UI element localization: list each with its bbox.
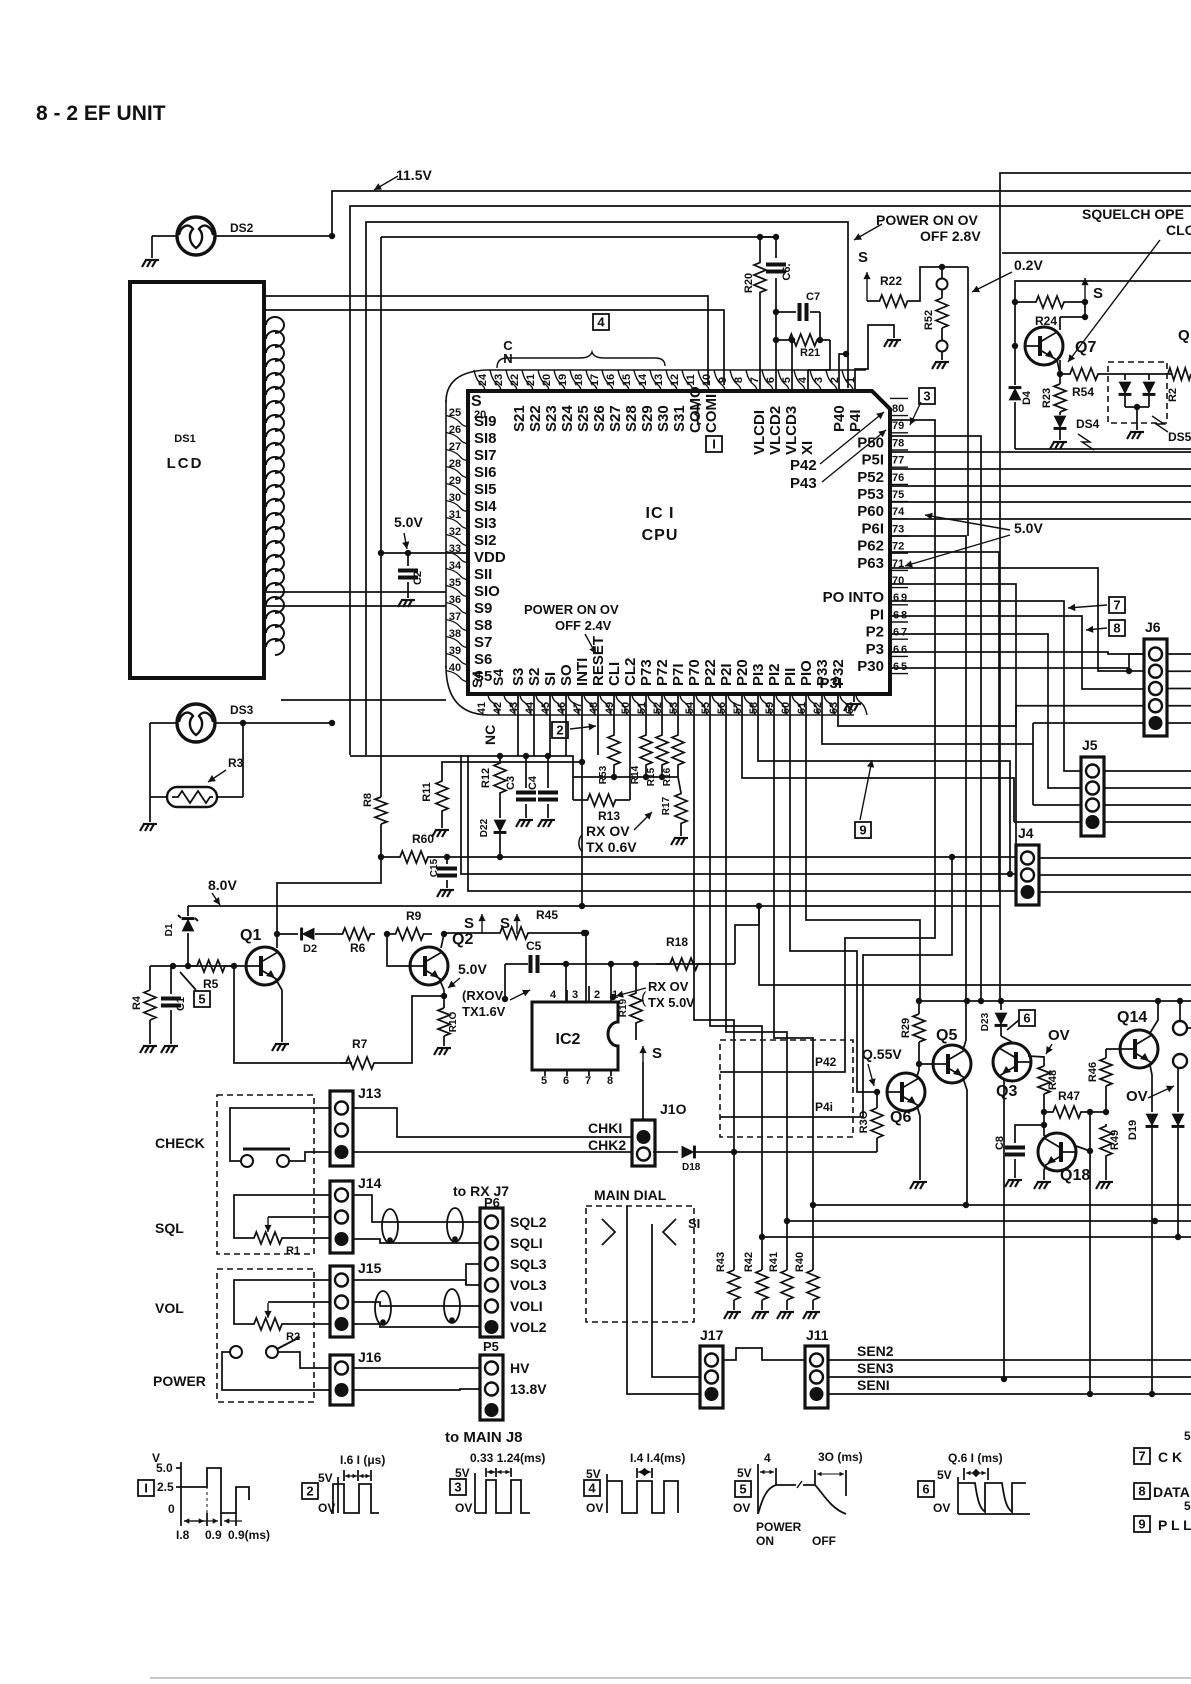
wire CHK2 [353,1151,632,1153]
wire pin68 net [890,601,1081,771]
node 8.0V [208,877,237,905]
wire Q2 collector [441,934,444,948]
wire pin63 long [838,694,1016,726]
svg-text:P6I: P6I [861,520,884,537]
label to MAIN J8 [445,1429,523,1446]
label VOL3 [510,1277,547,1293]
svg-text:SI: SI [688,1216,700,1231]
svg-text:S26: S26 [591,405,608,432]
svg-text:21: 21 [525,374,537,386]
svg-text:3: 3 [454,1480,461,1495]
svg-text:5: 5 [541,1075,547,1087]
capacitor C4 [527,756,558,818]
resistor R9 [387,909,432,940]
svg-text:S7: S7 [474,634,492,651]
svg-text:C1: C1 [175,997,187,1011]
ground R11 [432,830,449,837]
svg-text:0.2V: 0.2V [1014,257,1043,273]
wf6 axis [933,1468,958,1515]
node 6 box [1007,1010,1035,1030]
node 0V Q14 [1126,1086,1174,1105]
cpu bottom pin band [488,694,867,715]
label VOLI [510,1298,543,1314]
legend 9 PLL [1134,1516,1191,1533]
wf4 dims [630,1451,685,1478]
svg-text:SQLI: SQLI [510,1235,543,1251]
wire Q2 base [387,934,411,966]
svg-text:D4: D4 [1021,390,1033,405]
svg-text:D22: D22 [479,818,490,837]
wire pin54 R43 [694,694,734,1270]
wire pin79 net P42 [720,420,935,1072]
diode D4 [1009,346,1033,449]
svg-text:0: 0 [168,1502,175,1516]
dashed box VOL POWER [217,1269,314,1402]
svg-text:CHK2: CHK2 [588,1137,626,1153]
svg-text:P72: P72 [654,659,671,686]
svg-text:XI: XI [799,441,816,455]
svg-text:SI3: SI3 [474,515,497,532]
label HV [510,1360,530,1376]
resistor R4 [131,966,156,1044]
wire Q rail [920,998,1191,1004]
wire Q7 block bottom [1015,448,1191,450]
resistor R54 [1060,368,1108,399]
svg-text:7: 7 [1113,598,1120,613]
svg-text:R20: R20 [743,273,755,293]
svg-text:35: 35 [449,577,461,589]
svg-text:8 - 2 EF UNIT: 8 - 2 EF UNIT [36,102,166,125]
svg-text:J6: J6 [1145,619,1161,635]
svg-text:Q3: Q3 [996,1083,1017,1100]
thermistor R3 [167,756,244,807]
twist sql b [447,1208,463,1242]
svg-text:0.33 1.24(ms): 0.33 1.24(ms) [470,1451,545,1465]
svg-text:S29: S29 [639,405,656,432]
node 0.55V [862,1046,902,1086]
svg-text:13.8V: 13.8V [510,1381,547,1397]
svg-text:30: 30 [449,492,461,504]
ground R42 [752,1312,769,1319]
connector J5 [1081,737,1104,836]
resistor R29 [900,998,925,1064]
svg-text:POWER: POWER [153,1373,206,1389]
svg-text:25: 25 [449,407,461,419]
wire C5 left [502,964,508,1002]
svg-text:26: 26 [449,424,461,436]
svg-text:J13: J13 [358,1085,382,1101]
svg-text:S31: S31 [671,405,688,432]
svg-text:COMI: COMI [703,394,720,433]
svg-text:S4: S4 [490,669,506,686]
node RX0V TX5.0V [610,979,695,1010]
cpu left pin labels S5-S20 VDD [469,393,506,688]
wire R41 tap [784,1218,1191,1224]
svg-text:0.9: 0.9 [205,1528,222,1542]
wire J6 right pins [1166,654,1191,723]
pad circle right bottom [1173,1001,1187,1068]
wire Q1 emitter [275,978,282,1042]
node POWER ON 0V OFF 2.8V [854,212,981,244]
svg-text:POWER ON OV: POWER ON OV [524,602,619,617]
diode D18 [653,1146,877,1173]
svg-text:24: 24 [477,373,489,386]
svg-text:16: 16 [605,374,617,386]
wf1 axis [152,1451,181,1516]
svg-text:IC2: IC2 [556,1031,581,1048]
svg-text:OFF 2.8V: OFF 2.8V [920,228,981,244]
svg-text:S: S [652,1045,662,1062]
cpu bottom pin labels [490,636,847,686]
label SQL3 [510,1256,547,1272]
wf2 axis [318,1471,338,1515]
svg-text:{: { [694,400,701,425]
svg-text:to MAIN J8: to MAIN J8 [445,1429,523,1446]
wire pin55 R42 [710,694,762,1270]
svg-text:R45: R45 [536,908,558,922]
svg-text:15: 15 [621,374,633,386]
resistor R13 [573,694,630,823]
wire VOL2 [353,1324,480,1327]
svg-text:I.8: I.8 [176,1528,190,1542]
svg-text:S23: S23 [543,405,560,432]
wire Q6 emitter [917,1106,920,1180]
wire V968 down [967,267,969,536]
wire DS2 left stub [152,236,177,258]
ground C2 [398,600,415,607]
ground R43 [724,1312,741,1319]
svg-text:SI4: SI4 [474,498,497,515]
svg-text:5V: 5V [937,1468,952,1482]
wf2 trace [331,1484,379,1513]
svg-text:OV: OV [455,1501,472,1515]
svg-text:17: 17 [589,374,601,386]
svg-text:DS3: DS3 [230,703,254,717]
ground pin64 [844,694,861,711]
svg-text:(: ( [577,832,583,852]
svg-text:J17: J17 [700,1327,724,1343]
ground S branch [884,340,901,347]
svg-text:IC I: IC I [646,505,675,522]
wire pin56 R41 [726,694,787,1270]
svg-text:9: 9 [901,592,907,604]
svg-text:SI8: SI8 [474,430,497,447]
svg-text:5V: 5V [737,1466,752,1480]
svg-text:SEN3: SEN3 [857,1360,894,1376]
svg-text:73: 73 [892,523,904,535]
node Q partial [1178,327,1190,344]
wire CHK1 [353,1108,632,1137]
svg-text:(RXOV: (RXOV [462,988,504,1003]
svg-text:R22: R22 [880,274,902,288]
node 3 box top [910,388,935,425]
wire pin66 net [890,634,1081,788]
svg-text:40: 40 [449,662,461,674]
resistor R22 [867,264,968,307]
svg-text:J4: J4 [1018,825,1034,841]
svg-text:D19: D19 [1127,1120,1139,1140]
svg-text:PI2: PI2 [766,663,783,686]
wire CHECK right [289,1152,330,1161]
label P6 [484,1195,500,1210]
ground R52 [932,362,949,369]
svg-text:6: 6 [893,644,899,656]
svg-text:C4: C4 [527,775,539,790]
svg-text:5.0: 5.0 [156,1461,173,1475]
svg-text:R5: R5 [203,977,219,991]
svg-text:2: 2 [556,723,563,738]
diode D2 [277,928,338,955]
svg-text:S: S [464,915,474,932]
wire Q7 base [1012,343,1018,349]
svg-text:20: 20 [541,374,553,386]
svg-text:R46: R46 [1087,1062,1099,1082]
svg-text:POWER: POWER [756,1520,802,1534]
wire stair B pin61 [806,694,920,1001]
wire Q7 block top [1015,281,1191,346]
connector P6 [480,1208,503,1337]
svg-text:C: C [503,338,513,353]
wf5 trace [758,1450,863,1514]
svg-text:R3: R3 [228,756,244,770]
wire R18 line [540,963,735,965]
cpu right pin ticks [890,398,908,673]
wire pin72 net [890,536,966,1001]
svg-text:23: 23 [493,374,505,386]
node 5 box [180,972,210,1007]
svg-text:5V: 5V [318,1471,333,1485]
svg-text:to RX J7: to RX J7 [453,1183,509,1199]
svg-text:P40: P40 [831,405,848,432]
svg-text:P53: P53 [857,486,884,503]
wire J4 right pins [1039,858,1191,892]
svg-text:INTI: INTI [574,658,591,686]
wf6 trace [958,1483,1030,1514]
svg-text:R12: R12 [480,768,492,788]
label P5 [483,1339,499,1354]
wire pin47 drop [579,694,585,909]
node S arrow 1 [858,249,871,301]
svg-text:0.9(ms): 0.9(ms) [228,1528,270,1542]
resistor R16 [662,694,684,786]
led DS4 sym [1054,412,1100,450]
node D19 label [1127,1120,1139,1140]
svg-text:P20: P20 [734,659,751,686]
pad circle right top [1173,1021,1191,1035]
svg-text:Q18: Q18 [1060,1167,1090,1184]
svg-text:R21: R21 [800,347,820,359]
wire pin73 net [890,518,1191,520]
switch POWER [230,1337,300,1358]
wire R3 left [150,796,167,798]
svg-text:P52: P52 [857,469,884,486]
wf6 dims [948,1451,1003,1480]
svg-text:CLI: CLI [606,662,623,686]
svg-text:9: 9 [1138,1517,1145,1532]
node 8 box [1086,620,1125,636]
ground R4 [140,1046,157,1053]
svg-text:R17: R17 [661,796,672,815]
ground C4 [538,820,555,827]
switch CHECK [241,1149,290,1167]
wire junction R6 R9 [384,931,390,937]
svg-text:P62: P62 [857,538,884,555]
wire SQL2 [353,1195,480,1222]
svg-text:Q7: Q7 [1075,339,1096,356]
svg-text:2.5: 2.5 [157,1480,174,1494]
svg-text:2: 2 [306,1484,313,1499]
svg-text:38: 38 [449,628,461,640]
wire pin62 long [822,694,1033,805]
wire right h253 [1002,252,1191,254]
wf4 trace [607,1481,678,1513]
wire Q7 emitter [1057,360,1063,377]
ic IC2 top pins [550,986,618,1002]
dashed box P42 P41 [720,1040,853,1137]
cpu bottom pin numbers 41-64 [476,701,856,714]
wire LCD como [264,296,708,385]
svg-text:7: 7 [1138,1449,1145,1464]
wire Q18 right [1076,1146,1093,1154]
svg-text:R3O: R3O [858,1110,870,1133]
ground DS2 [142,260,159,267]
svg-text:C5: C5 [526,939,542,953]
wire right top corner [1000,173,1191,1001]
transistor Q5 [933,1027,971,1083]
svg-text:P73: P73 [638,659,655,686]
svg-text:6: 6 [901,644,907,656]
wire pin70 net [890,568,1144,671]
capacitor C5 [505,939,565,973]
svg-text:R19: R19 [618,998,629,1017]
wire SQL3 [466,1264,480,1285]
svg-text:R4: R4 [131,995,143,1010]
wf1 dashed [206,1468,208,1513]
svg-text:P5: P5 [483,1339,499,1354]
cpu left pin numbers 25-40 [449,407,462,674]
svg-text:8: 8 [1113,621,1120,636]
wire SQL1 [353,1239,480,1243]
resistor R20 [743,237,766,391]
transistor Q18 [1038,1133,1090,1184]
diode pair D in box [1108,374,1155,430]
wire SEN2 [828,1343,1191,1360]
resistor R18 [656,935,712,970]
wf3 box [450,1479,466,1495]
svg-text:P7I: P7I [670,663,687,686]
svg-text:DS4: DS4 [1076,417,1100,431]
svg-text:VLCDI: VLCDI [751,410,768,455]
svg-text:5: 5 [198,992,205,1007]
svg-text:DS2: DS2 [230,221,254,235]
svg-text:SIO: SIO [474,583,500,600]
svg-text:32: 32 [449,526,461,538]
wire base rail [155,963,245,969]
svg-text:D23: D23 [980,1012,991,1031]
connector J17 [700,1327,724,1408]
wire VDD line [378,550,468,556]
svg-text:8.0V: 8.0V [208,877,237,893]
svg-text:76: 76 [892,472,904,484]
wire Q6 collector [917,1064,919,1076]
svg-text:P L L: P L L [1158,1517,1191,1533]
resistor R40 [794,1252,819,1310]
svg-text:S3: S3 [510,668,527,686]
svg-text:22: 22 [509,374,521,386]
wire Q1 collector [274,931,280,948]
wire pin71 net [890,552,999,891]
svg-text:OFF 2.4V: OFF 2.4V [555,618,612,633]
resistor R12 [480,756,506,800]
svg-text:42: 42 [492,702,504,714]
wf1 dims [176,1513,270,1542]
resistor R17 [661,777,687,836]
wf5 labels [756,1520,836,1548]
svg-text:R42: R42 [743,1252,755,1272]
svg-text:Q14: Q14 [1117,1009,1147,1026]
wire squelch leader [1068,240,1160,362]
svg-text:R29: R29 [900,1018,912,1038]
node 5.0V Q2 [448,961,487,988]
resistor R46 [1087,1049,1112,1112]
label S1 [688,1216,700,1231]
svg-text:P70: P70 [686,659,703,686]
cpu IC1 outline [468,391,890,694]
resistor R47 [1044,1089,1093,1118]
node 5.0V right [905,513,1043,568]
wire 11.5V rail [332,191,1191,235]
svg-text:6: 6 [893,661,899,673]
diode D19 left [1146,1108,1159,1397]
LCD DS1 block [130,282,264,678]
svg-text:11: 11 [685,374,697,386]
resistor R7 [340,1037,380,1069]
svg-text:S30: S30 [655,405,672,432]
encoder chevron left [602,1219,615,1245]
wire LCD coil out [281,699,446,701]
wire J10 up [642,1062,644,1120]
connector J10 [632,1101,687,1166]
svg-text:(: ( [641,990,647,1007]
wire SEN3 [828,1360,1191,1377]
svg-text:P4i: P4i [815,1100,833,1114]
svg-text:SENI: SENI [857,1377,890,1393]
resistor R15 [646,694,668,786]
pot R2 [240,1303,300,1343]
svg-text:CPU: CPU [642,527,679,544]
svg-text:79: 79 [892,420,904,432]
svg-text:SI5: SI5 [474,481,497,498]
svg-text:J15: J15 [358,1260,382,1276]
wf5 axis [733,1466,758,1515]
svg-text:41: 41 [476,702,488,714]
ground Q6 [910,1182,927,1189]
wire rail3 [366,222,848,755]
svg-text:6: 6 [1023,1011,1030,1026]
svg-text:MAIN DIAL: MAIN DIAL [594,1187,667,1203]
svg-text:P3: P3 [866,641,884,658]
ic IC2 box [532,1002,618,1070]
title text [36,102,166,125]
twist sql a [382,1209,398,1243]
capacitor C8 [994,1122,1047,1178]
svg-text:OV: OV [1048,1027,1070,1044]
twist vol b [444,1289,460,1323]
lamp DS2 [177,217,254,255]
capacitor C2 [398,553,424,598]
svg-text:SI6: SI6 [474,464,497,481]
svg-text:PO INTO: PO INTO [823,589,885,606]
